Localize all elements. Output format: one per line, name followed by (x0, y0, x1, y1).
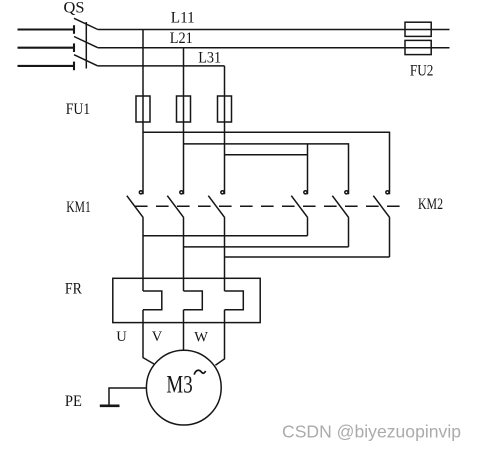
svg-text:QS: QS (64, 0, 85, 16)
wire V to motor (183, 310, 185, 351)
svg-text:KM2: KM2 (418, 196, 443, 213)
wire L2 incoming (18, 47, 75, 49)
svg-text:V: V (152, 329, 163, 345)
contactor KM1 pole 1 contact circle (139, 191, 142, 194)
wire join W phase (225, 256, 390, 258)
contactor KM2 pole 2 contact circle (345, 191, 348, 194)
wire L21 bus (98, 47, 450, 49)
QS mechanical link (85, 22, 87, 69)
fuse FU1 pole 3 (218, 96, 232, 122)
QS pole 1 blade (74, 18, 98, 29)
wire branch phase3 horizontal (225, 154, 308, 156)
PE earth wire (109, 388, 146, 405)
svg-text:L31: L31 (198, 50, 221, 67)
contactor KM2 pole 2 blade (332, 196, 349, 218)
QS pole 3 blade (74, 55, 98, 66)
wire KM2 left contact vertical (307, 144, 309, 194)
wire branch phase2 to KM2 middle contact (184, 144, 349, 194)
wire KM2 pole2 lower (348, 218, 350, 247)
contactor KM2 pole 3 blade (373, 196, 390, 218)
fuse FU1 pole 2 (177, 96, 191, 122)
wire U to motor (143, 310, 154, 364)
contactor KM1 pole 3 contact circle (221, 191, 224, 194)
svg-text:FR: FR (65, 280, 83, 297)
wire L11 bus (98, 29, 450, 31)
wire drop phase 3 to KM1 contact (224, 66, 226, 194)
contactor KM2 pole 1 contact circle (304, 191, 307, 194)
svg-text:M3: M3 (166, 371, 192, 398)
svg-text:FU1: FU1 (66, 101, 91, 118)
FR heater element 3 (225, 291, 244, 310)
FR heater element 1 (143, 291, 162, 310)
QS pole 2 blade (74, 37, 98, 48)
QS pole 2 terminal tick (73, 43, 75, 52)
fuse FU1 pole 1 (136, 96, 150, 122)
wire KM1 pole3 lower (224, 218, 226, 291)
fuse FU2 pole 1 (405, 22, 431, 36)
PE earth bar (100, 404, 120, 407)
KM1-KM2 interlock dashed line (135, 205, 400, 207)
svg-text:PE: PE (65, 393, 82, 410)
wire W to motor (215, 310, 224, 365)
svg-text:U: U (116, 329, 127, 345)
wire L1 incoming (18, 28, 75, 30)
contactor KM1 pole 1 blade (127, 196, 144, 218)
contactor KM2 pole 1 blade (291, 196, 308, 218)
svg-text:L11: L11 (171, 10, 195, 27)
svg-text:W: W (194, 330, 208, 346)
svg-text:L21: L21 (170, 30, 193, 47)
QS pole 3 terminal tick (73, 62, 75, 71)
fuse FU2 pole 2 (405, 40, 431, 54)
contactor KM2 pole 3 contact circle (386, 191, 389, 194)
wire KM2 pole3 lower (389, 218, 391, 257)
label motor tilde (194, 370, 205, 374)
wire drop phase 1 to KM1 contact (142, 30, 144, 195)
FR heater element 2 (184, 291, 203, 310)
wire L31 bus (98, 65, 225, 67)
wire L3 incoming (18, 65, 75, 67)
contactor KM1 pole 2 blade (167, 196, 184, 218)
contactor KM1 pole 2 contact circle (180, 191, 183, 194)
thermal relay FR box (113, 278, 260, 322)
wire KM1 pole1 lower (142, 218, 144, 291)
wire join U phase (143, 235, 308, 237)
svg-text:CSDN @biyezuopinvip: CSDN @biyezuopinvip (282, 422, 461, 442)
QS pole 1 terminal tick (73, 25, 75, 34)
svg-text:FU2: FU2 (410, 62, 434, 79)
wire drop phase 2 to KM1 contact (183, 48, 185, 195)
wire join V phase (184, 246, 349, 248)
contactor KM1 pole 3 blade (208, 196, 225, 218)
wire KM2 pole1 lower (307, 218, 309, 236)
svg-text:KM1: KM1 (66, 199, 91, 216)
motor M circle (146, 350, 221, 425)
wire KM1 pole2 lower (183, 218, 185, 291)
wire branch phase1 to KM2 right contact (143, 132, 390, 194)
